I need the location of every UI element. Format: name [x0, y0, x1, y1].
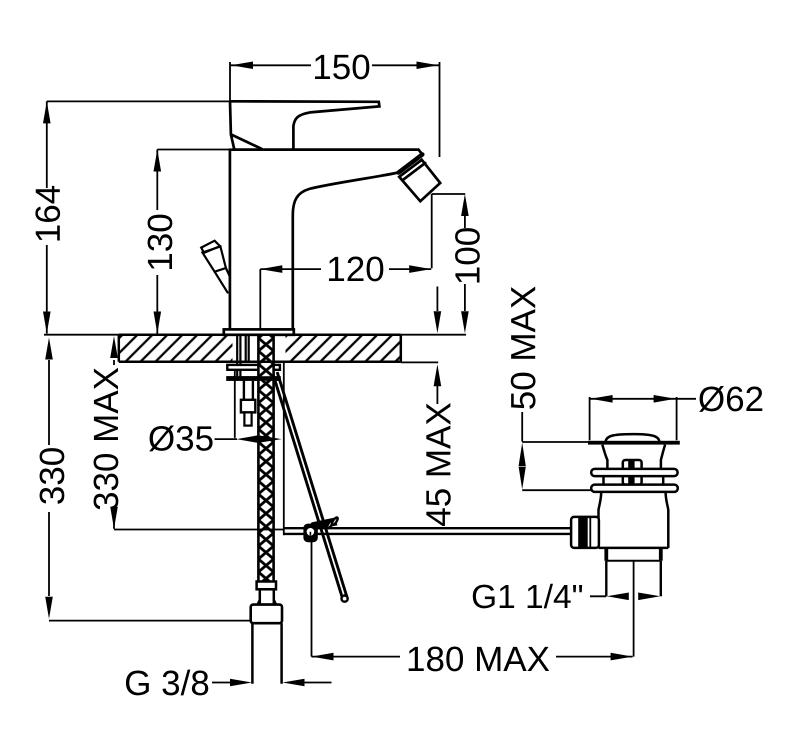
- G 3/8 arrows: [230, 679, 252, 687]
- ring section: [606, 548, 661, 561]
- handle lever: [230, 101, 379, 149]
- dim 50 MAX: [522, 412, 591, 490]
- label G114: [473, 584, 582, 609]
- tailpipe: [606, 561, 661, 596]
- guide tube pair: [244, 381, 253, 400]
- base plate: [224, 329, 294, 334]
- label 100: [455, 228, 480, 282]
- 100 arrows: [461, 194, 469, 216]
- connector: [251, 605, 282, 624]
- washer 2: [591, 485, 678, 492]
- deck extension lines: [44, 335, 466, 363]
- aerator: [399, 160, 440, 201]
- guide block: [241, 400, 255, 413]
- label 180 MAX: [409, 647, 550, 672]
- label O62: [699, 386, 762, 412]
- deck outline (over hose): [119, 335, 401, 362]
- 180 MAX arrows: [312, 653, 334, 661]
- washer: [227, 365, 280, 370]
- guide narrow end: [244, 412, 251, 425]
- label 164: [35, 186, 60, 241]
- Ø35 double arrow: [237, 435, 282, 443]
- pop-up knob at rear: [201, 241, 230, 293]
- flange sides: [602, 445, 665, 469]
- G1 1/4 arrows: [607, 593, 629, 601]
- hatch right of hole: [286, 336, 400, 361]
- shank lines in hole: [237, 335, 249, 365]
- between washers body: [604, 476, 664, 485]
- dim 120: [260, 194, 465, 329]
- locking nut (filled): [226, 376, 280, 381]
- clamp joint: [303, 517, 338, 543]
- dim Ø62: [590, 397, 696, 440]
- body top / spout top edge: [232, 150, 422, 155]
- label 330: [40, 448, 65, 504]
- dim G 3/8: [212, 682, 332, 684]
- label 50 MAX: [511, 286, 536, 408]
- label 150: [315, 55, 369, 80]
- tube: [260, 589, 274, 604]
- label G38: [126, 670, 208, 696]
- ferrule: [257, 582, 276, 590]
- dim 45 MAX: [436, 287, 438, 405]
- dim 150: [230, 62, 440, 157]
- dim 100: [464, 216, 466, 311]
- washer 1: [591, 469, 677, 476]
- label 130: [148, 215, 173, 269]
- nipple G3/8: [252, 623, 281, 684]
- hatch left of hole: [120, 336, 233, 361]
- side port: [571, 517, 599, 548]
- dim G1 1/4: [590, 561, 634, 657]
- 330 MAX arrows: [110, 336, 118, 358]
- dim 130: [157, 150, 229, 334]
- label 330 MAX: [94, 368, 119, 510]
- dim 330 MAX: [114, 360, 284, 530]
- dim 330: [49, 360, 251, 621]
- arrowheads: [43, 62, 676, 687]
- dim Ø35 leader: [215, 438, 237, 440]
- 330 arrows: [45, 338, 53, 360]
- hole edge line right / rod end (Ø35 ext): [283, 362, 285, 535]
- body left side: [229, 150, 232, 330]
- Ø62 arrows: [591, 395, 613, 403]
- dim 180 MAX: [312, 536, 633, 657]
- dim 164: [47, 101, 230, 333]
- spout end face: [399, 155, 423, 173]
- spout underside curve: [293, 173, 399, 330]
- label O35: [149, 425, 212, 451]
- 150 arrows: [231, 62, 253, 70]
- hole edge line left (Ø35 ext): [234, 370, 236, 438]
- 130 arrows: [154, 150, 162, 172]
- 50 MAX arrows: [519, 443, 526, 466]
- main body: [599, 492, 669, 548]
- 45 MAX arrows: [434, 311, 442, 333]
- label 45 MAX: [426, 403, 450, 526]
- 120 arrows: [260, 265, 282, 273]
- pivot nut: [623, 460, 642, 485]
- 164 arrows: [43, 101, 51, 123]
- label 120: [329, 257, 383, 282]
- cap dome: [606, 434, 660, 441]
- flange bar: [588, 441, 680, 445]
- locking nut overlay (on top of hose & rod): [226, 376, 280, 381]
